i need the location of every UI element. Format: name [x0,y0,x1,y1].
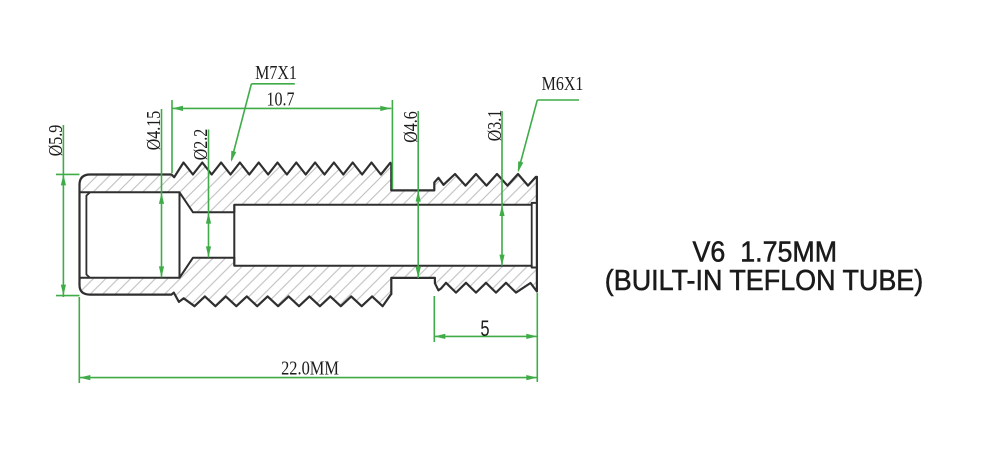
thread label M7X1 leader [251,83,294,85]
svg-text:Ø2.2: Ø2.2 [189,129,211,161]
svg-text:V6 1.75MM: V6 1.75MM [693,235,838,267]
inner bore bottom profile [81,258,537,278]
dimension 5 [433,296,435,342]
counterbore end face [179,192,181,277]
dimension Ø2.2 [208,130,210,258]
dimension 22.0MM [78,297,80,383]
bore step face at throat exit [233,205,235,266]
svg-text:5: 5 [480,317,489,342]
svg-text:Ø4.15: Ø4.15 [142,111,164,151]
heatbreak outer contour with M7 and M6 thread profiles [80,163,537,307]
teflon tube left end face [86,192,90,277]
dimension 10.7 [171,100,173,173]
heatbreak body cross-section hatching [80,163,537,307]
dimension Ø3.1 [501,111,503,266]
svg-text:(BUILT-IN TEFLON TUBE): (BUILT-IN TEFLON TUBE) [605,264,923,296]
dimension Ø5.9 [56,173,80,175]
svg-text:Ø5.9: Ø5.9 [44,125,66,157]
teflon tube right end face [531,205,533,266]
svg-text:M6X1: M6X1 [542,72,584,94]
thread label M6X1 leader [537,99,579,101]
svg-text:22.0MM: 22.0MM [281,357,339,379]
svg-text:M7X1: M7X1 [255,61,297,83]
dimension Ø4.15 [161,109,163,277]
svg-text:Ø3.1: Ø3.1 [483,110,505,142]
dimension Ø4.6 [417,111,419,278]
svg-text:10.7: 10.7 [266,88,294,110]
svg-text:Ø4.6: Ø4.6 [399,111,421,143]
inner bore top profile [81,192,537,212]
